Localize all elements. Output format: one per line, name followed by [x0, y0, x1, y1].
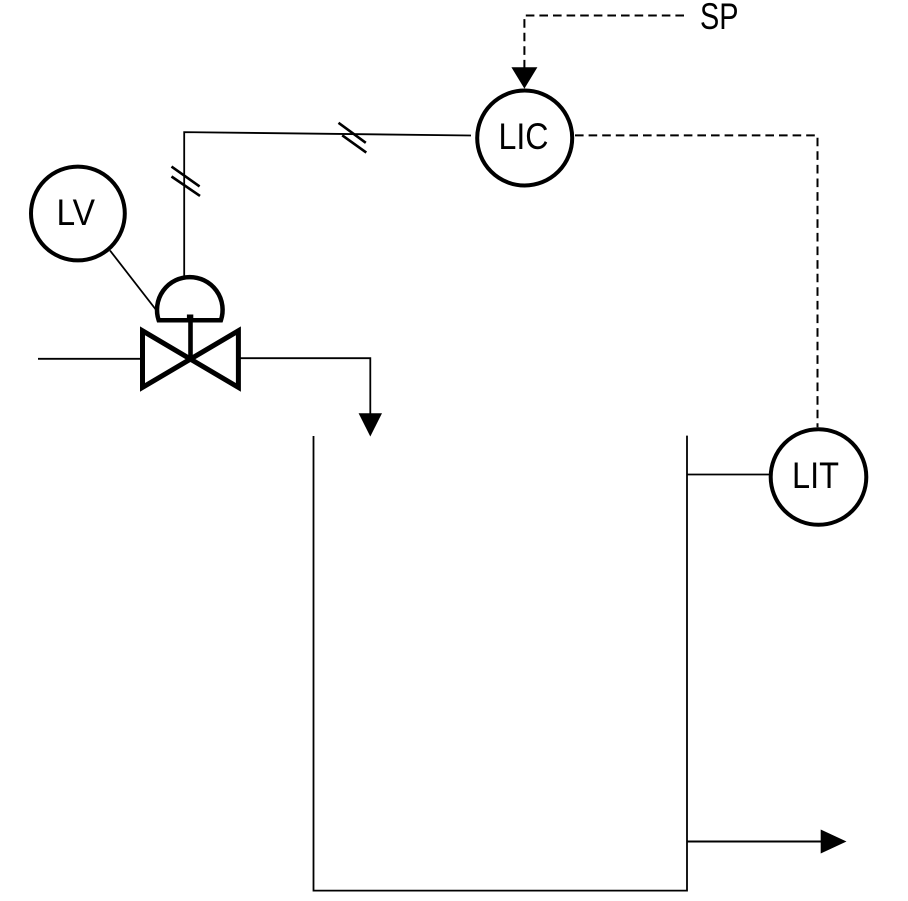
svg-text:LV: LV — [57, 192, 96, 233]
svg-text:LIC: LIC — [499, 116, 549, 157]
svg-text:SP: SP — [700, 0, 739, 37]
svg-text:LIT: LIT — [792, 455, 839, 496]
